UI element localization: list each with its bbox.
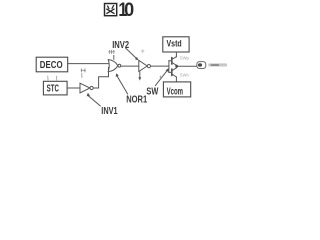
svg-text:NOR1: NOR1 [126,93,147,104]
svg-text:SW: SW [146,85,158,96]
tiny numeral above INV1 [81,69,85,77]
faint output arrow smudge [208,63,227,66]
wire Mn to Vcom [175,77,177,82]
wire NOR1 output to INV2 input [121,65,138,67]
wire INV2 output to switch gate rail [151,65,169,67]
box DECO [36,57,67,72]
tick marks above STC box [48,76,57,80]
stub with arrow below INV2 [139,72,141,78]
faint noise mark near INV2 leader [141,50,144,53]
svg-text:SWn: SWn [180,73,190,78]
box Vstd [163,37,189,52]
switch gate rail [168,61,170,73]
wire STC to INV1 input [67,87,80,89]
inverter INV2 [139,60,147,71]
svg-text:STC: STC [47,82,59,94]
transistor Mn (lower) [169,68,177,77]
output terminal [197,62,206,69]
wire INV1 output staircase to NOR1 lower input [93,67,109,88]
svg-text:Vstd: Vstd [166,39,181,49]
box Vcom [163,82,190,97]
wire DECO to NOR1 top input [68,63,109,65]
svg-text:0: 0 [124,0,134,20]
svg-text:DECO: DECO [40,59,63,70]
wire Vstd to transistor Mp [175,52,177,57]
inverter INV1 [80,83,90,93]
faint marks above Vcom box [160,76,162,79]
svg-text:SWp: SWp [180,55,190,60]
node output junction [175,65,177,68]
NOR gate NOR1 [108,60,118,72]
wire node to output terminal [178,65,197,67]
tick and tiny numeral above NOR1 [113,55,115,59]
svg-text:INV1: INV1 [101,105,117,116]
transistor Mp (upper) [169,57,177,66]
svg-text:Vcom: Vcom [167,85,183,97]
title figure number 図10 [105,4,117,16]
box STC [43,81,67,95]
